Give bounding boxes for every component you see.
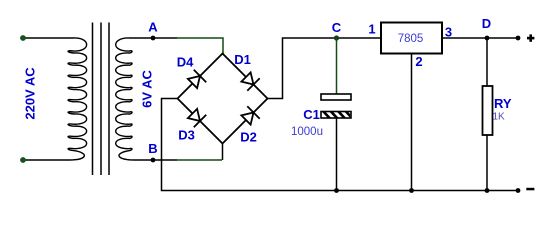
svg-text:D: D bbox=[482, 16, 491, 31]
svg-text:D1: D1 bbox=[234, 52, 251, 67]
svg-text:1: 1 bbox=[368, 22, 375, 37]
bridge rectifier diamond bbox=[178, 54, 268, 144]
relay coil RY body bbox=[483, 86, 493, 135]
wire node D down to relay RY bbox=[486, 38, 488, 86]
wire 7805 pin 2 down to bottom rail bbox=[411, 54, 413, 191]
svg-text:C: C bbox=[332, 20, 342, 35]
wire bridge left corner to negative bottom rail bbox=[162, 99, 519, 191]
svg-text:1000u: 1000u bbox=[291, 126, 323, 138]
svg-text:C1: C1 bbox=[303, 107, 320, 122]
wire node B toward bridge bottom corner bbox=[177, 159, 222, 161]
transformer T1 primary winding (with leads to 220V terminals) bbox=[23, 38, 87, 160]
wire bridge bottom corner down to B wire bbox=[222, 144, 224, 161]
wire bridge right corner up to node C rail bbox=[268, 38, 382, 99]
svg-text:D2: D2 bbox=[240, 130, 257, 145]
transformer T1 secondary winding (with leads to nodes A and B) bbox=[116, 38, 177, 160]
node D junction dot bbox=[485, 36, 490, 41]
svg-text:B: B bbox=[148, 141, 157, 156]
junction dot rail below relay bbox=[485, 188, 490, 193]
svg-text:A: A bbox=[148, 20, 158, 35]
wire 7805 output pin 3 to plus terminal bbox=[442, 37, 518, 39]
svg-text:D3: D3 bbox=[178, 128, 195, 143]
diode D1 bbox=[241, 72, 259, 90]
transformer T1 core bbox=[93, 23, 110, 176]
node B junction dot bbox=[151, 158, 156, 163]
minus terminal dot bbox=[516, 188, 521, 193]
node A junction dot bbox=[151, 36, 156, 41]
minus sign bbox=[526, 188, 534, 191]
svg-text:7805: 7805 bbox=[398, 33, 424, 45]
terminal dot 220V top bbox=[20, 35, 26, 41]
plus terminal dot bbox=[516, 36, 521, 41]
diode D3 bbox=[188, 109, 206, 127]
wire relay RY to bottom rail bbox=[486, 135, 488, 191]
terminal dot 220V bottom bbox=[20, 157, 26, 163]
svg-text:D4: D4 bbox=[177, 55, 194, 70]
wire node A to bridge top corner bbox=[177, 38, 223, 54]
svg-text:2: 2 bbox=[415, 54, 422, 69]
svg-text:1K: 1K bbox=[493, 112, 506, 123]
regulator U1 7805 body bbox=[381, 23, 442, 54]
wire node C down to capacitor C1 bbox=[336, 38, 338, 94]
junction dot rail below C1 bbox=[334, 188, 339, 193]
wire capacitor C1 to bottom rail bbox=[336, 118, 338, 191]
svg-text:6V AC: 6V AC bbox=[140, 69, 155, 107]
plus sign bbox=[527, 34, 534, 41]
svg-text:220V AC: 220V AC bbox=[23, 67, 38, 120]
node C junction dot bbox=[334, 35, 339, 40]
diode D2 bbox=[241, 106, 259, 124]
capacitor C1 bbox=[321, 94, 353, 119]
svg-text:RY: RY bbox=[494, 96, 512, 111]
junction dot rail below pin 2 bbox=[409, 188, 414, 193]
diode D4 bbox=[188, 70, 206, 88]
